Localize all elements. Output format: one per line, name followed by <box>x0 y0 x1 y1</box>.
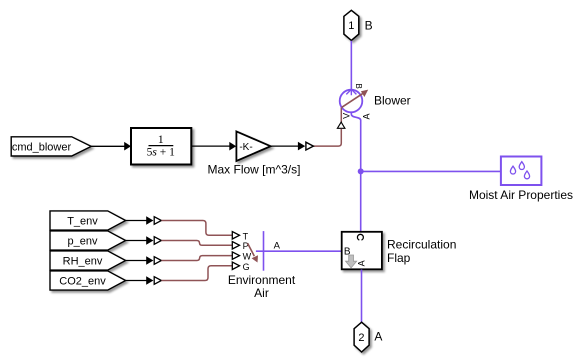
PS wire: blower lower-left stub <box>340 108 342 123</box>
wire CO2_env <box>126 280 147 282</box>
env air port G <box>232 262 239 269</box>
env air port W <box>232 252 239 259</box>
svg-text:1: 1 <box>158 132 164 146</box>
flap gray arrow <box>346 255 357 268</box>
svg-text:A: A <box>361 113 371 119</box>
wire cmd_blower to TF <box>91 145 125 147</box>
tag CO2_env <box>50 271 126 290</box>
svg-text:G: G <box>243 262 250 272</box>
arrowhead into gain <box>229 142 236 151</box>
converter arrows row T <box>146 216 153 224</box>
arrowhead into converter <box>298 142 305 151</box>
wire RH_env <box>126 260 147 262</box>
svg-text:B: B <box>354 84 363 89</box>
flap C port arc <box>357 234 363 240</box>
droplet 3 <box>524 171 529 179</box>
svg-text:-K-: -K- <box>239 142 252 153</box>
svg-text:Blower: Blower <box>374 94 411 108</box>
svg-text:1: 1 <box>348 20 354 32</box>
PS wire CO2_env to G <box>161 266 232 281</box>
wire T_env <box>126 220 147 222</box>
arrowhead into TF <box>124 142 131 151</box>
environment air icon cross vertical <box>263 231 265 271</box>
svg-text:Moist Air Properties: Moist Air Properties <box>469 188 573 202</box>
svg-text:Environment: Environment <box>228 273 296 287</box>
svg-text:p_env: p_env <box>68 235 98 247</box>
converter open triangle after gain <box>306 142 314 150</box>
blower circle U1 <box>340 90 363 113</box>
svg-text:P: P <box>243 241 249 251</box>
svg-text:5s + 1: 5s + 1 <box>147 146 175 158</box>
blower top port marker <box>346 89 356 95</box>
droplet 1 <box>510 166 515 174</box>
svg-text:Flap: Flap <box>387 251 411 265</box>
PS wire RH_env to W <box>161 256 232 261</box>
wire gain to converter <box>271 145 299 147</box>
svg-text:V: V <box>342 113 352 119</box>
converter arrows row RH <box>146 256 153 264</box>
tag RH_env <box>50 251 126 270</box>
PS input triangle of blower <box>337 122 345 128</box>
PS wire T_env to T <box>161 221 232 236</box>
converter arrows row CO2 <box>146 276 153 284</box>
svg-text:A: A <box>374 330 382 344</box>
svg-text:Max Flow [m^3/s]: Max Flow [m^3/s] <box>208 163 301 177</box>
svg-text:T: T <box>243 231 249 241</box>
junction node <box>358 168 364 174</box>
environment air brown arrow <box>248 243 255 256</box>
gain block Max Flow <box>236 131 270 161</box>
purple wire blower A to junction to flap <box>351 112 360 231</box>
svg-text:2: 2 <box>358 332 364 344</box>
transfer function block <box>131 128 191 165</box>
svg-text:B: B <box>365 19 373 33</box>
svg-text:CO2_env: CO2_env <box>59 275 106 287</box>
PS wire p_env to P <box>161 241 232 246</box>
tag T_env <box>50 211 126 230</box>
svg-text:W: W <box>243 252 252 262</box>
svg-text:RH_env: RH_env <box>63 255 103 267</box>
outport 2 (A) hexagon <box>354 322 369 352</box>
converter arrows row p <box>146 236 153 244</box>
wire junction to moist air properties <box>361 170 501 172</box>
outport 1 (B) hexagon <box>344 10 359 40</box>
TF fraction bar <box>149 145 174 147</box>
svg-text:cmd_blower: cmd_blower <box>12 141 72 153</box>
wire p_env <box>126 240 147 242</box>
env air port P <box>232 242 239 249</box>
wire flap to port 2 <box>361 270 363 323</box>
wire TF to gain <box>192 145 231 147</box>
environment air icon cross horizontal / wire to flap <box>256 250 342 252</box>
blower impeller arrow <box>342 93 364 108</box>
svg-text:T_env: T_env <box>67 215 98 227</box>
svg-text:Air: Air <box>254 286 269 300</box>
env air port T <box>232 232 239 239</box>
tag p_env <box>50 231 126 250</box>
droplet 2 <box>519 162 524 170</box>
cmd_blower From tag <box>11 137 91 156</box>
recirculation flap block <box>342 232 382 269</box>
svg-text:A: A <box>274 241 281 252</box>
PS wire: gain to blower <box>313 129 341 146</box>
svg-text:Recirculation: Recirculation <box>387 238 456 252</box>
svg-text:A: A <box>357 260 367 266</box>
moist air properties block <box>501 157 542 186</box>
wire: port 1 to blower <box>350 41 352 90</box>
